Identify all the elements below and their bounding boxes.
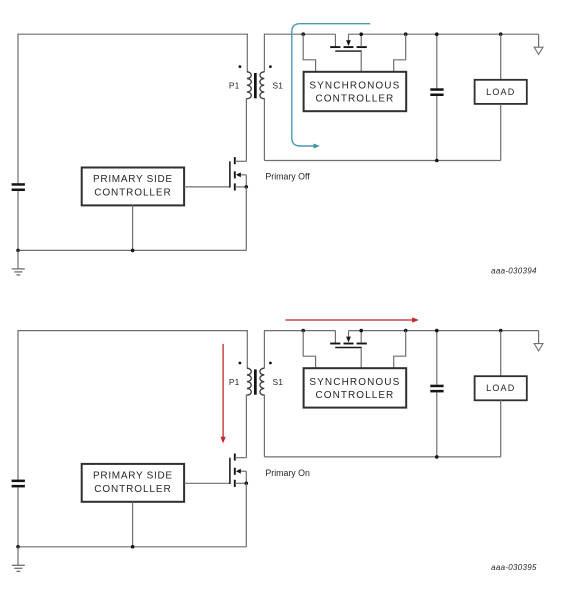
- node: junction controller ground / bottom rail: [131, 249, 135, 253]
- wire: secondary winding bottom lead: [263, 98, 265, 161]
- wire: secondary top rail to sync FET drain: [264, 330, 335, 332]
- block U2: SYNCHRONOUS CONTROLLER box: [304, 72, 407, 111]
- transistor Q2: gate bar: [335, 347, 362, 349]
- svg-text:S1: S1: [272, 80, 283, 90]
- wire: body tie to source: [245, 175, 247, 187]
- svg-text:Primary On: Primary On: [265, 468, 310, 478]
- transformer winding P1 (primary): [247, 368, 251, 395]
- node: junction left rail / bottom rail / ground: [16, 545, 20, 549]
- node: junction source sense tap: [404, 32, 408, 36]
- annotation: blue secondary current path arrow: [292, 24, 370, 146]
- wire: secondary output rail after sync FET: [349, 33, 539, 35]
- svg-text:Primary Off: Primary Off: [265, 172, 310, 182]
- node: junction output rail / capacitor: [435, 32, 439, 36]
- wire: left input rail upper segment: [17, 34, 19, 184]
- transistor Q1: channel segments: [234, 454, 236, 461]
- capacitor: input bulk capacitor plates: [12, 480, 25, 483]
- transistor Q1: source lead: [235, 482, 246, 484]
- wire: left input rail lower segment: [17, 487, 19, 547]
- ground: secondary output ground arrow: [538, 34, 540, 47]
- transistor Q1: body arrow: [240, 174, 246, 176]
- node: junction source / output rail: [359, 329, 363, 333]
- wire: output capacitor top lead: [436, 331, 438, 385]
- transistor Q2: source lead: [360, 34, 362, 46]
- transformer core: [254, 73, 257, 98]
- transistor Q1: primary MOSFET gate bar: [229, 161, 231, 187]
- svg-text:CONTROLLER: CONTROLLER: [94, 188, 171, 199]
- wire: controller gate drive to Q1: [184, 482, 230, 484]
- wire: controller ground lead: [132, 205, 134, 250]
- ground: primary-side earth ground symbol: [17, 250, 19, 269]
- node: junction drain sense tap: [301, 32, 305, 36]
- wire: Q1 source down to bottom rail: [245, 187, 247, 251]
- svg-text:PRIMARY SIDE: PRIMARY SIDE: [93, 174, 173, 185]
- svg-text:P1: P1: [229, 80, 240, 90]
- node: junction source / output rail: [359, 32, 363, 36]
- transistor Q2: source lead: [360, 331, 362, 343]
- transformer winding P1 (primary): [247, 72, 251, 99]
- node: junction drain sense tap: [301, 329, 305, 333]
- svg-text:SYNCHRONOUS: SYNCHRONOUS: [309, 377, 400, 388]
- transistor Q2: gate bar: [335, 50, 362, 52]
- transistor Q1: channel segments: [234, 157, 236, 164]
- annotation: red primary current arrow: [222, 344, 224, 437]
- wire: source sense stair to sync controller: [394, 331, 406, 369]
- wire: output capacitor bottom lead: [436, 392, 438, 457]
- svg-text:PRIMARY SIDE: PRIMARY SIDE: [93, 471, 173, 482]
- transistor Q2: body arrow: [348, 331, 350, 337]
- transistor Q2: sync MOSFET drain lead: [334, 331, 336, 343]
- svg-text:CONTROLLER: CONTROLLER: [315, 93, 394, 104]
- node: junction body/source tie: [245, 482, 249, 486]
- wire: left input rail upper segment: [17, 330, 19, 480]
- block: LOAD box: [475, 80, 527, 104]
- block U1: PRIMARY SIDE CONTROLLER box: [82, 168, 184, 206]
- wire: Q2 gate to sync controller: [360, 348, 362, 369]
- wire: secondary bottom return rail: [264, 160, 500, 162]
- capacitor: output capacitor plates: [430, 88, 443, 91]
- node: junction body/source tie: [245, 185, 249, 189]
- polarity dot: P1 phase dot: [239, 362, 242, 365]
- wire: drain sense stair to sync controller: [303, 331, 315, 369]
- transistor Q1: drain lead: [235, 160, 246, 162]
- wire: secondary bottom return rail: [264, 456, 500, 458]
- wire: secondary winding bottom lead: [263, 394, 265, 457]
- svg-text:CONTROLLER: CONTROLLER: [315, 390, 394, 401]
- node: junction output rail / capacitor: [435, 329, 439, 333]
- wire: controller gate drive to Q1: [184, 186, 230, 188]
- wire: left input rail lower segment: [17, 191, 19, 251]
- node: junction capacitor / bottom rail: [435, 159, 439, 163]
- node: junction controller ground / bottom rail: [131, 545, 135, 549]
- polarity dot: P1 phase dot: [239, 65, 242, 68]
- wire: secondary winding top lead: [263, 330, 265, 369]
- transistor Q1: body arrow: [240, 470, 246, 472]
- wire: source sense stair to sync controller: [394, 34, 406, 72]
- block U2: SYNCHRONOUS CONTROLLER box: [304, 368, 407, 407]
- wire: primary bottom return rail: [17, 249, 246, 251]
- polarity dot: S1 phase dot: [269, 362, 272, 365]
- wire: primary bottom return rail: [17, 546, 246, 548]
- transistor Q1: primary MOSFET gate bar: [229, 458, 231, 484]
- transistor Q1: source lead: [235, 186, 246, 188]
- svg-text:P1: P1: [229, 377, 240, 387]
- wire: transformer primary bottom to Q1 drain: [245, 98, 247, 161]
- ground: secondary output ground arrow: [538, 331, 540, 344]
- wire: load top lead: [500, 34, 502, 80]
- transformer winding S1 (secondary): [260, 368, 264, 395]
- wire: Q2 gate to sync controller: [360, 51, 362, 72]
- wire: primary top rail: [17, 330, 248, 332]
- wire: primary winding top lead: [246, 34, 248, 73]
- wire: body tie to source: [245, 471, 247, 483]
- transformer core: [254, 369, 257, 394]
- transformer winding S1 (secondary): [260, 72, 264, 99]
- wire: secondary output rail after sync FET: [349, 330, 539, 332]
- transistor Q2: body arrow: [348, 34, 350, 40]
- wire: drain sense stair to sync controller: [303, 34, 315, 72]
- wire: transformer primary bottom to Q1 drain: [245, 394, 247, 457]
- svg-text:S1: S1: [272, 377, 283, 387]
- transistor Q2: channel segments: [330, 343, 340, 345]
- block U1: PRIMARY SIDE CONTROLLER box: [82, 464, 184, 502]
- wire: secondary top rail to sync FET drain: [264, 33, 335, 35]
- wire: load top lead: [500, 331, 502, 377]
- transistor Q2: sync MOSFET drain lead: [334, 34, 336, 46]
- wire: secondary winding top lead: [263, 34, 265, 73]
- ground: primary-side earth ground symbol: [17, 547, 19, 566]
- capacitor: input bulk capacitor plates: [12, 183, 25, 186]
- transistor Q1: drain lead: [235, 457, 246, 459]
- transistor Q2: channel segments: [330, 46, 340, 48]
- wire: load bottom lead: [500, 400, 502, 457]
- node: junction source sense tap: [404, 329, 408, 333]
- svg-text:aaa-030395: aaa-030395: [491, 563, 537, 572]
- node: junction left rail / bottom rail / ground: [16, 249, 20, 253]
- node: junction output rail / load: [499, 329, 503, 333]
- capacitor: output capacitor plates: [430, 385, 443, 388]
- wire: primary winding top lead: [246, 330, 248, 369]
- node: junction output rail / load: [499, 32, 503, 36]
- annotation: red output current arrow: [285, 319, 412, 321]
- svg-text:LOAD: LOAD: [486, 87, 515, 97]
- wire: controller ground lead: [132, 502, 134, 547]
- wire: Q1 source down to bottom rail: [245, 483, 247, 547]
- wire: primary top rail: [17, 33, 248, 35]
- wire: output capacitor top lead: [436, 34, 438, 88]
- node: junction capacitor / bottom rail: [435, 455, 439, 459]
- block: LOAD box: [475, 376, 527, 400]
- svg-text:SYNCHRONOUS: SYNCHRONOUS: [309, 81, 400, 92]
- svg-text:aaa-030394: aaa-030394: [491, 267, 537, 276]
- svg-text:LOAD: LOAD: [486, 383, 515, 393]
- wire: load bottom lead: [500, 104, 502, 161]
- wire: output capacitor bottom lead: [436, 96, 438, 161]
- svg-text:CONTROLLER: CONTROLLER: [94, 484, 171, 495]
- polarity dot: S1 phase dot: [269, 65, 272, 68]
